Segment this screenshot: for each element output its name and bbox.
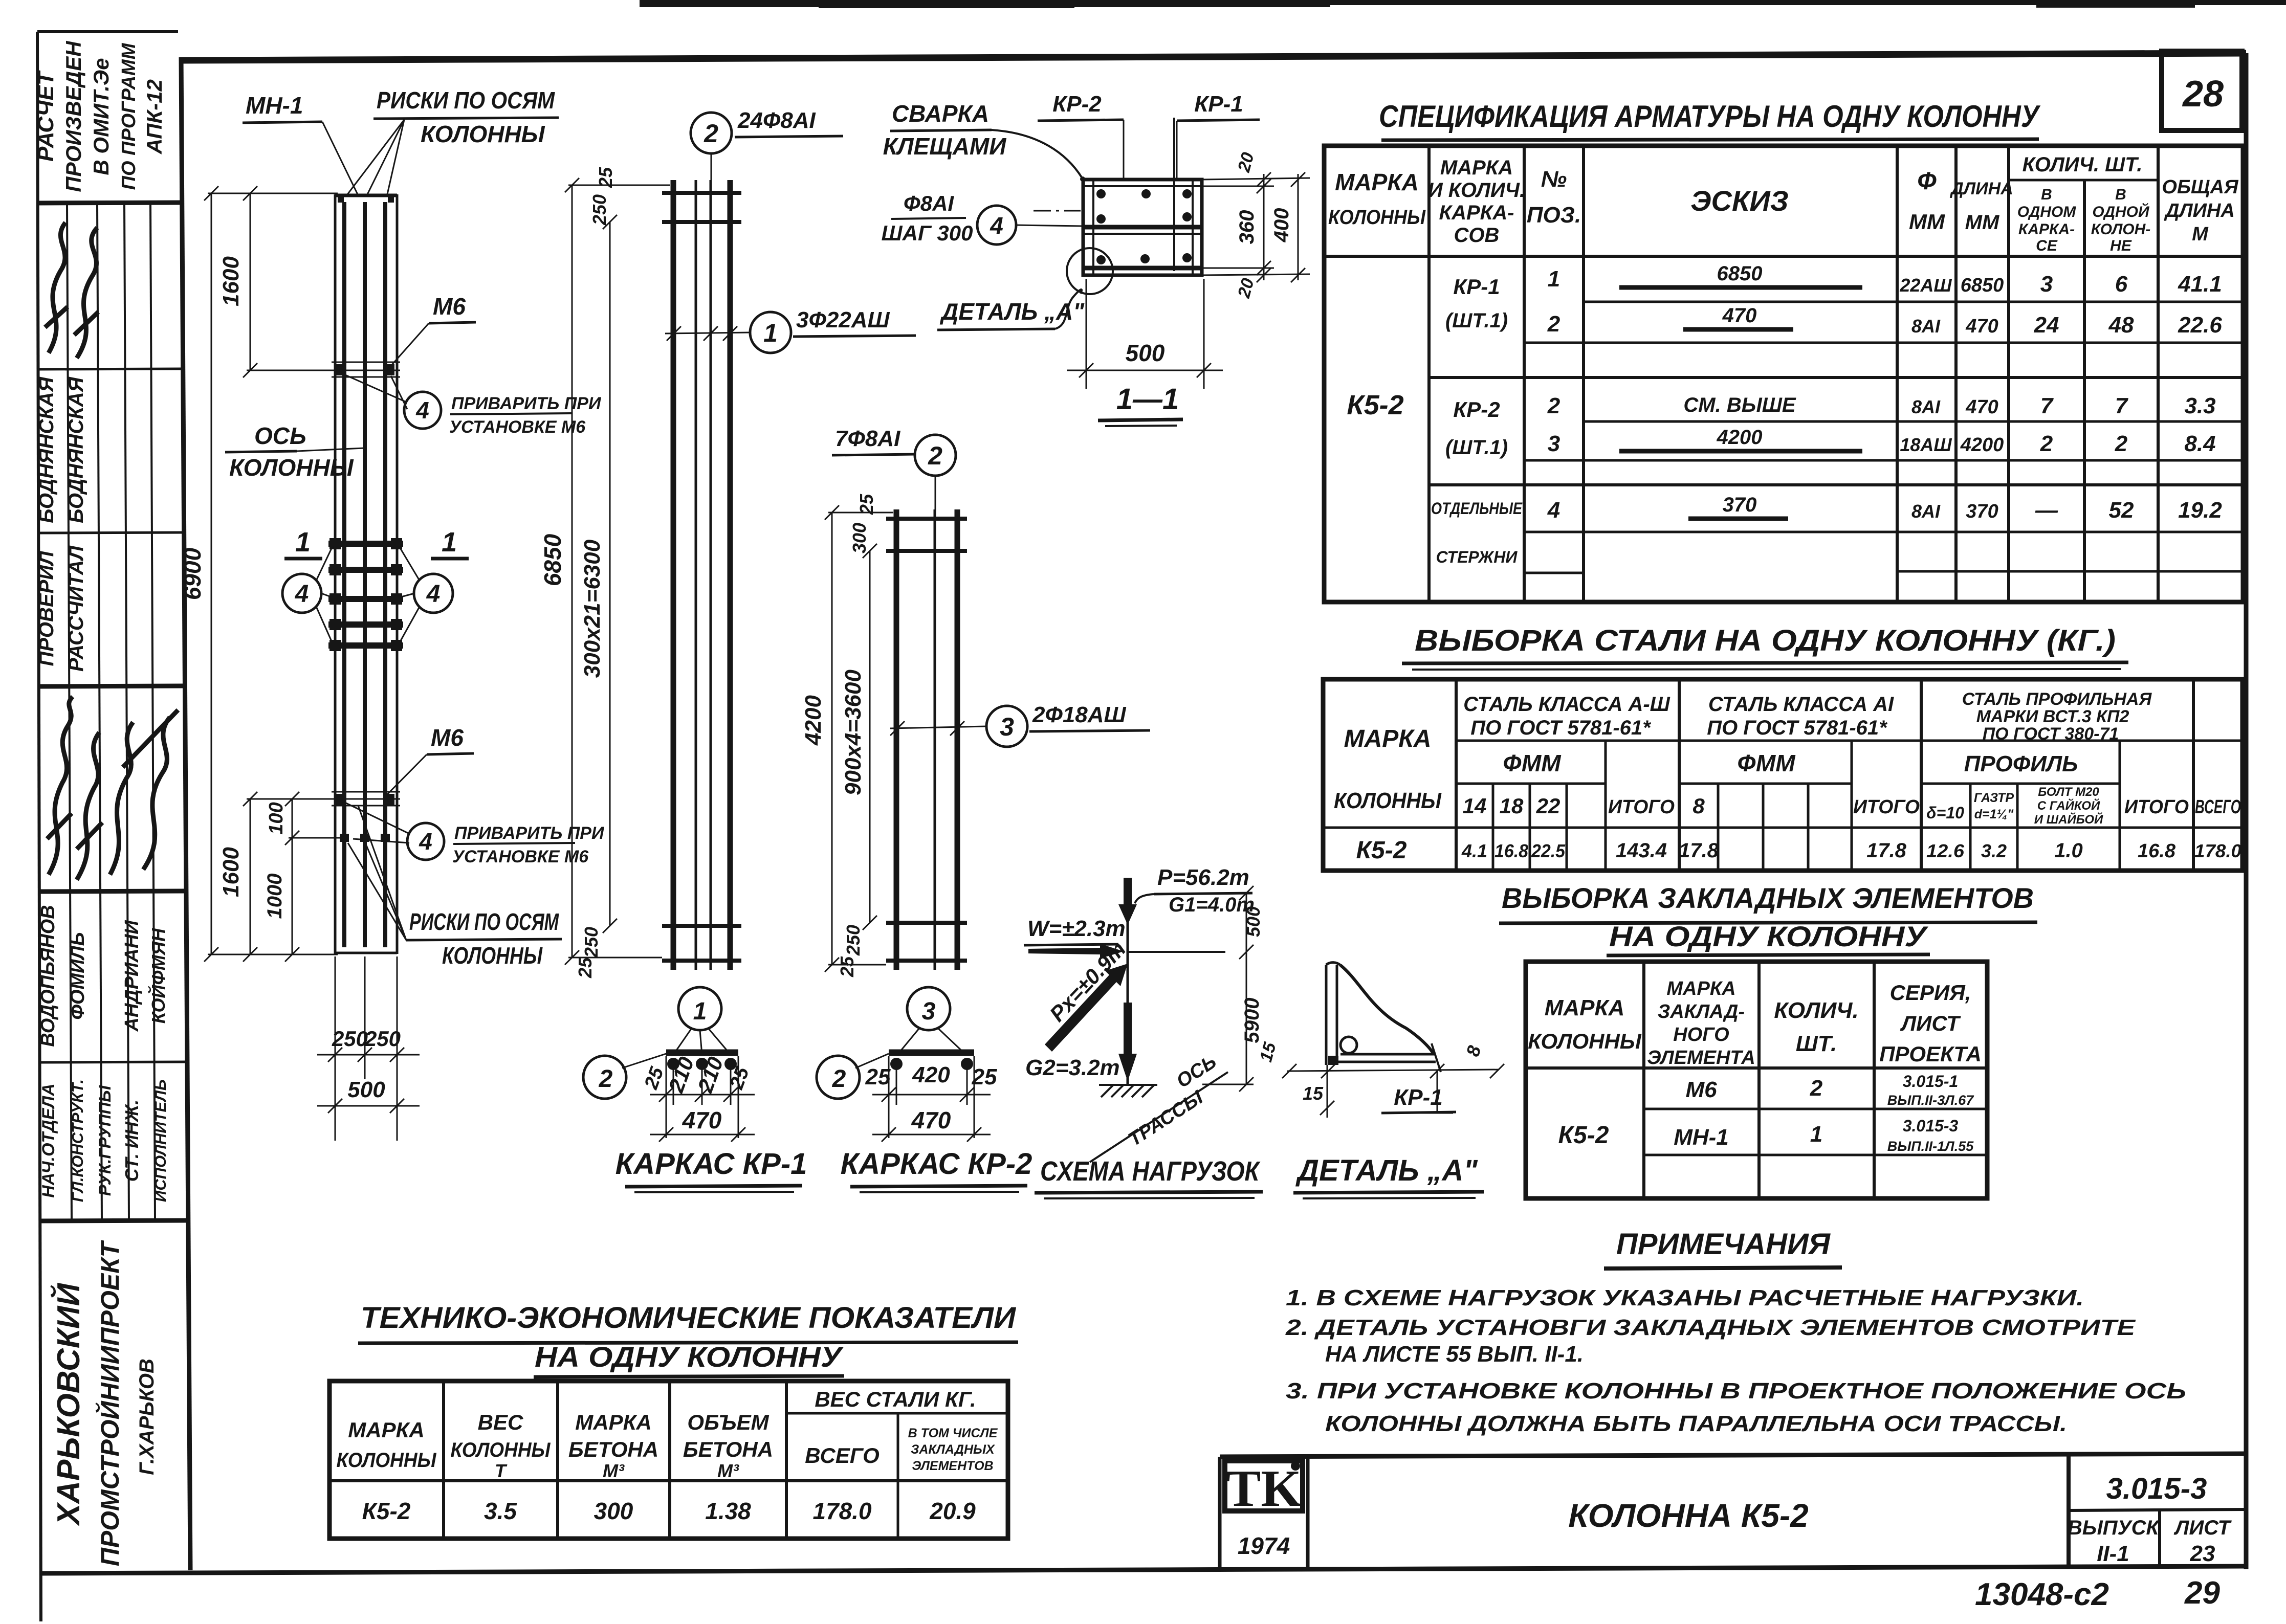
svg-text:24Ф8АI: 24Ф8АI [737, 108, 816, 133]
notes heading [1604, 1228, 1842, 1269]
axis трассы label [1090, 1051, 1228, 1162]
steel summary table grid [1323, 679, 2243, 871]
section 1-1 right dimensions 20 360 400 20 [1202, 172, 1310, 282]
svg-text:ВЫБОРКА СТАЛИ НА ОДНУ КОЛОН: ВЫБОРКА СТАЛИ НА ОДНУ КОЛОННУ (КГ.) [1415, 624, 2116, 657]
callout circle 2 on Кр-1 plan [583, 1054, 666, 1099]
svg-text:178.0: 178.0 [2194, 840, 2241, 861]
svg-text:370: 370 [1723, 494, 1757, 516]
svg-text:2: 2 [599, 1065, 613, 1093]
svg-text:М6: М6 [433, 293, 466, 320]
stamp cell: role titles rotated [39, 1079, 169, 1202]
svg-text:М6: М6 [1685, 1077, 1717, 1102]
label деталь А with squiggle [937, 290, 1085, 330]
label 1-1 [1098, 383, 1183, 426]
svg-text:РАСЧЕТ: РАСЧЕТ [33, 70, 58, 162]
svg-text:28: 28 [2182, 74, 2224, 115]
svg-text:25: 25 [595, 167, 616, 188]
svg-text:КОЛОННЫ ДОЛЖНА БЫТЬ ПАРАЛЛЕ: КОЛОННЫ ДОЛЖНА БЫТЬ ПАРАЛЛЕЛЬНА ОСИ ТРАС… [1325, 1411, 2067, 1436]
svg-text:178.0: 178.0 [812, 1498, 872, 1524]
svg-text:М6: М6 [431, 724, 464, 751]
svg-text:23: 23 [2190, 1541, 2215, 1566]
svg-text:4200: 4200 [1717, 426, 1763, 449]
svg-text:25: 25 [865, 1064, 891, 1089]
svg-text:ДЛИНА: ДЛИНА [1949, 179, 2013, 198]
svg-text:3.015-1: 3.015-1 [1903, 1072, 1959, 1091]
svg-text:КОЛОННЫ: КОЛОННЫ [337, 1449, 437, 1472]
svg-text:КАРКА-: КАРКА- [2018, 221, 2075, 238]
svg-text:420: 420 [912, 1062, 950, 1087]
svg-text:КОЛОННЫ: КОЛОННЫ [229, 454, 354, 481]
svg-text:КОЙФМЯН: КОЙФМЯН [147, 928, 169, 1024]
svg-text:17.8: 17.8 [1679, 839, 1719, 862]
callout circle 4 mid left [282, 546, 333, 643]
svg-text:В: В [2041, 186, 2052, 203]
svg-text:δ=10: δ=10 [1926, 804, 1964, 822]
svg-text:М³: М³ [603, 1460, 625, 1481]
svg-text:1: 1 [1548, 266, 1560, 292]
svg-text:4: 4 [1547, 498, 1560, 523]
svg-text:КОЛОННЫ: КОЛОННЫ [442, 942, 543, 969]
svg-text:25: 25 [972, 1064, 997, 1089]
svg-text:КР-1: КР-1 [1453, 275, 1500, 299]
svg-text:4.1: 4.1 [1461, 840, 1487, 861]
svg-text:8АI: 8АI [1911, 501, 1941, 522]
svg-text:БОДНЯНСКАЯ: БОДНЯНСКАЯ [35, 376, 58, 523]
svg-text:6850: 6850 [1961, 275, 2004, 296]
sheet number box 28 [2162, 51, 2242, 130]
rebar cage Кр-1 plan [650, 1053, 755, 1142]
svg-text:250: 250 [332, 1027, 368, 1051]
svg-text:ИТОГО: ИТОГО [1853, 796, 1920, 818]
stamp cell: calculation note rotated text [33, 40, 166, 192]
dimension 1600 bottom [243, 792, 332, 962]
svg-text:16.8: 16.8 [1494, 840, 1528, 861]
svg-text:В: В [2115, 186, 2126, 203]
callout circle 2 for Кр-2 [832, 426, 956, 509]
svg-text:РИСКИ ПО ОСЯМ: РИСКИ ПО ОСЯМ [377, 87, 555, 114]
stamp signatures upper [45, 223, 98, 358]
column lower embed М6 band [332, 792, 400, 842]
svg-text:ИСПОЛНИТЕЛЬ: ИСПОЛНИТЕЛЬ [151, 1079, 169, 1202]
svg-text:250: 250 [589, 194, 610, 226]
svg-text:МАРКА: МАРКА [1545, 995, 1625, 1020]
svg-text:И КОЛИЧ.: И КОЛИЧ. [1428, 179, 1525, 202]
handwritten doc number bottom [1975, 1575, 2220, 1612]
svg-text:2: 2 [2115, 431, 2128, 456]
svg-text:470: 470 [1722, 304, 1757, 327]
drawing stamp column grid [37, 32, 186, 1621]
svg-text:В ТОМ ЧИСЛЕ: В ТОМ ЧИСЛЕ [908, 1426, 998, 1440]
svg-text:МАРКА: МАРКА [1666, 978, 1735, 999]
callout circle 3 longitudinal bars Кр-2 [890, 702, 1150, 747]
svg-text:TK: TK [1226, 1460, 1301, 1518]
svg-text:ШТ.: ШТ. [1796, 1031, 1837, 1056]
svg-text:25: 25 [837, 956, 858, 977]
svg-text:В ОМИТ.Эе: В ОМИТ.Эе [89, 58, 113, 175]
svg-text:РАССЧИТАЛ: РАССЧИТАЛ [65, 545, 87, 672]
svg-text:КОЛОННЫ: КОЛОННЫ [1328, 206, 1426, 229]
svg-text:СПЕЦИФИКАЦИЯ АРМАТУРЫ НА ОД: СПЕЦИФИКАЦИЯ АРМАТУРЫ НА ОДНУ КОЛОННУ [1379, 99, 2041, 134]
detail A drawing [1326, 963, 1441, 1072]
callout circle 3 on Кр-2 plan [897, 987, 966, 1055]
svg-text:ВСЕГО: ВСЕГО [2195, 796, 2241, 818]
svg-text:АНДРИАНИ: АНДРИАНИ [121, 920, 143, 1032]
svg-text:ПРОИЗВЕДЕН: ПРОИЗВЕДЕН [61, 40, 85, 192]
svg-text:РУК.ГРУППЫ: РУК.ГРУППЫ [95, 1085, 114, 1196]
svg-text:ЗАКЛАДНЫХ: ЗАКЛАДНЫХ [911, 1442, 995, 1457]
stamp cell: executor names rotated [37, 905, 169, 1047]
svg-text:6: 6 [2115, 272, 2128, 297]
svg-text:ШАГ 300: ШАГ 300 [882, 221, 973, 245]
svg-text:УСТАНОВКЕ М6: УСТАНОВКЕ М6 [449, 417, 586, 437]
column upper embed М6 band [332, 362, 400, 377]
tech-economic table grid [329, 1381, 1008, 1539]
svg-text:НА ОДНУ КОЛОННУ: НА ОДНУ КОЛОННУ [1609, 920, 1929, 952]
detail A dimension lines [1282, 1064, 1504, 1118]
title block bottom [1220, 1454, 2246, 1568]
svg-text:470: 470 [1965, 396, 1998, 418]
svg-text:370: 370 [1966, 501, 1998, 522]
svg-text:300: 300 [849, 523, 870, 553]
title: технико-экономические показатели [358, 1301, 1018, 1377]
svg-text:1600: 1600 [218, 847, 244, 897]
stamp cell: organization name rotated [50, 1239, 158, 1566]
svg-text:БОЛТ М20: БОЛТ М20 [2038, 785, 2099, 799]
svg-text:К5-2: К5-2 [1558, 1122, 1609, 1149]
svg-text:1974: 1974 [1238, 1532, 1290, 1559]
svg-text:250: 250 [364, 1027, 401, 1051]
svg-text:МАРКА: МАРКА [575, 1410, 651, 1434]
svg-text:360: 360 [1236, 210, 1258, 244]
svg-text:ВЫП.II-1Л.55: ВЫП.II-1Л.55 [1887, 1139, 1974, 1154]
svg-text:2Ф18АШ: 2Ф18АШ [1032, 702, 1127, 727]
label риски по осям колонны top [346, 87, 559, 196]
svg-text:5900: 5900 [1241, 998, 1263, 1043]
svg-text:КАРКАС КР-1: КАРКАС КР-1 [616, 1147, 807, 1181]
svg-text:К5-2: К5-2 [1356, 837, 1407, 864]
rebar cage Кр-2 plan [872, 1053, 991, 1142]
svg-text:МАРКА: МАРКА [1440, 157, 1513, 179]
svg-text:МАРКИ ВСТ.3 КП2: МАРКИ ВСТ.3 КП2 [1976, 707, 2129, 726]
svg-text:470: 470 [911, 1107, 951, 1133]
svg-text:ПРОВЕРИЛ: ПРОВЕРИЛ [35, 550, 58, 666]
svg-text:ВЕС: ВЕС [478, 1410, 523, 1434]
svg-text:ПОЗ.: ПОЗ. [1527, 203, 1581, 228]
load G2 arrow bottom [1025, 1003, 1137, 1081]
svg-text:Т: Т [495, 1460, 508, 1481]
svg-text:18: 18 [1500, 794, 1524, 818]
label схема нагрузок [1035, 1156, 1263, 1198]
svg-text:ОДНОЙ: ОДНОЙ [2092, 203, 2150, 220]
rebar cage Кр-2 elevation [886, 509, 967, 970]
svg-text:1.0: 1.0 [2054, 839, 2083, 862]
svg-text:8.4: 8.4 [2184, 431, 2215, 456]
svg-text:1: 1 [1810, 1122, 1822, 1147]
svg-text:2: 2 [2040, 431, 2053, 456]
label КР-1 leader [1177, 92, 1260, 180]
svg-text:ОБЪЕМ: ОБЪЕМ [687, 1410, 769, 1434]
svg-text:НАЧ.ОТДЕЛА: НАЧ.ОТДЕЛА [39, 1083, 58, 1198]
svg-text:1000: 1000 [263, 874, 286, 919]
svg-text:3: 3 [1548, 431, 1560, 456]
svg-text:ИТОГО: ИТОГО [1608, 796, 1675, 818]
svg-text:КР-1: КР-1 [1194, 92, 1243, 117]
svg-text:ЭЛЕМЕНТОВ: ЭЛЕМЕНТОВ [912, 1459, 993, 1473]
svg-text:СОВ: СОВ [1454, 224, 1500, 247]
svg-text:СТАЛЬ КЛАССА АI: СТАЛЬ КЛАССА АI [1708, 693, 1894, 716]
svg-text:250: 250 [843, 925, 864, 956]
svg-text:3. ПРИ УСТАНОВКЕ КОЛОННЫ В: 3. ПРИ УСТАНОВКЕ КОЛОННЫ В ПРОЕКТНОЕ ПОЛ… [1286, 1378, 2186, 1404]
dimension 900x4=3600 for Кр-2 [863, 544, 877, 930]
svg-text:3Ф22АШ: 3Ф22АШ [796, 307, 890, 332]
svg-text:КОЛИЧ. ШТ.: КОЛИЧ. ШТ. [2023, 153, 2143, 176]
svg-text:3: 3 [922, 998, 936, 1025]
svg-text:М: М [2192, 224, 2209, 245]
svg-text:ОСЬ: ОСЬ [254, 422, 306, 449]
svg-text:МН-1: МН-1 [1674, 1125, 1729, 1150]
title block texts [1568, 1472, 2232, 1566]
svg-text:29: 29 [2184, 1575, 2220, 1611]
svg-text:500: 500 [1126, 340, 1165, 366]
ground hatch [1099, 1085, 1157, 1097]
svg-text:2. ДЕТАЛЬ УСТАНОВГИ ЗАКЛАДНЫХ: 2. ДЕТАЛЬ УСТАНОВГИ ЗАКЛАДНЫХ ЭЛЕМЕНТОВ … [1285, 1315, 2136, 1340]
rebar cage Кр-1 elevation [662, 180, 741, 970]
callout 4 приварить upper [342, 373, 602, 437]
label каркас Кр-1 [616, 1147, 807, 1192]
load scheme axis [1128, 878, 1225, 1084]
title: specification арматуры [1379, 99, 2041, 146]
label Ф8АI шаг 300 with callout 4 [882, 191, 1083, 245]
section 1-1 box [1083, 118, 1202, 275]
svg-text:КР-1: КР-1 [1394, 1085, 1443, 1110]
svg-text:6850: 6850 [539, 533, 566, 586]
dimension 100 and 1000 [285, 792, 340, 962]
svg-text:22.5: 22.5 [1531, 840, 1566, 861]
callout circle 2 for Кр-1 [691, 108, 843, 180]
svg-text:КОЛОН-: КОЛОН- [2091, 221, 2151, 238]
svg-text:ВЫП.II-3Л.67: ВЫП.II-3Л.67 [1887, 1093, 1974, 1108]
svg-text:ВЫПУСК: ВЫПУСК [2068, 1517, 2160, 1539]
svg-text:3.3: 3.3 [2184, 393, 2215, 418]
svg-text:II-1: II-1 [2097, 1541, 2129, 1566]
section mark 1-1 left [284, 527, 322, 559]
svg-text:Р=56.2т: Р=56.2т [1157, 865, 1249, 890]
svg-text:ПО ПРОГРАММ: ПО ПРОГРАММ [118, 42, 140, 190]
svg-text:СМ. ВЫШЕ: СМ. ВЫШЕ [1683, 394, 1796, 416]
svg-text:КОЛОННА К5-2: КОЛОННА К5-2 [1568, 1497, 1808, 1534]
steel summary table texts [1334, 689, 2241, 864]
dimension 4200 for Кр-2 [825, 505, 893, 972]
svg-text:1. В СХЕМЕ НАГРУЗОК УКАЗАНЫ Р: 1. В СХЕМЕ НАГРУЗОК УКАЗАНЫ РАСЧЕТНЫЕ НА… [1286, 1285, 2084, 1310]
svg-text:2: 2 [704, 119, 718, 148]
svg-text:ВЕС СТАЛИ КГ.: ВЕС СТАЛИ КГ. [815, 1387, 976, 1411]
section axis dash [1034, 210, 1081, 212]
svg-text:7: 7 [2040, 393, 2054, 418]
svg-text:500: 500 [347, 1077, 385, 1102]
svg-text:ПРОФИЛЬ: ПРОФИЛЬ [1964, 751, 2078, 776]
svg-text:МАРКА: МАРКА [348, 1418, 424, 1442]
svg-text:4200: 4200 [801, 695, 826, 746]
svg-text:К5-2: К5-2 [362, 1498, 411, 1524]
svg-text:ФММ: ФММ [1503, 750, 1562, 776]
embedded parts table texts [1528, 978, 1982, 1154]
stamp cell: Боднянская names rotated [35, 376, 87, 523]
svg-text:КАРКАС КР-2: КАРКАС КР-2 [841, 1147, 1032, 1181]
svg-text:ПРОМСТРОЙНИИПРОЕКТ: ПРОМСТРОЙНИИПРОЕКТ [95, 1239, 124, 1566]
svg-text:МАРКА: МАРКА [1344, 725, 1432, 752]
svg-text:300: 300 [594, 1498, 633, 1524]
callout circle 2 on Кр-2 plan [817, 1054, 889, 1099]
label М6 lower [384, 724, 474, 798]
svg-text:КР-2: КР-2 [1453, 397, 1500, 421]
svg-text:143.4: 143.4 [1616, 839, 1667, 862]
svg-text:2: 2 [1547, 312, 1560, 337]
svg-text:ГЛ.КОНСТРУКТ.: ГЛ.КОНСТРУКТ. [69, 1079, 86, 1202]
svg-text:БЕТОНА: БЕТОНА [683, 1437, 773, 1461]
svg-text:ММ: ММ [1909, 210, 1945, 234]
svg-text:G2=3.2т: G2=3.2т [1025, 1055, 1120, 1080]
svg-text:4: 4 [426, 581, 441, 608]
svg-text:НА ЛИСТЕ 55 ВЫП. II-1.: НА ЛИСТЕ 55 ВЫП. II-1. [1325, 1342, 1584, 1367]
svg-text:ВОДОПЬЯНОВ: ВОДОПЬЯНОВ [37, 905, 59, 1047]
section 1-1 bottom dimension 500 [1067, 279, 1223, 389]
svg-text:ПО ГОСТ 5781-61*: ПО ГОСТ 5781-61* [1470, 717, 1652, 739]
svg-text:ОБЩАЯ: ОБЩАЯ [2162, 176, 2238, 198]
svg-text:250: 250 [581, 927, 602, 958]
svg-text:ПРИВАРИТЬ ПРИ: ПРИВАРИТЬ ПРИ [451, 394, 602, 413]
svg-text:48: 48 [2108, 313, 2134, 338]
svg-text:2: 2 [1547, 393, 1560, 418]
svg-text:1: 1 [763, 319, 778, 347]
label ось колонны [225, 422, 364, 481]
svg-text:КР-2: КР-2 [1052, 92, 1102, 117]
load P arrow [1118, 865, 1255, 925]
svg-text:СЕРИЯ,: СЕРИЯ, [1890, 981, 1971, 1005]
svg-text:КОЛИЧ.: КОЛИЧ. [1774, 998, 1858, 1023]
svg-text:БОДНЯНСКАЯ: БОДНЯНСКАЯ [65, 376, 87, 523]
svg-text:НОГО: НОГО [1673, 1024, 1729, 1045]
svg-text:РИСКИ ПО ОСЯМ: РИСКИ ПО ОСЯМ [409, 908, 559, 935]
svg-text:(ШТ.1): (ШТ.1) [1445, 436, 1508, 459]
svg-text:НЕ: НЕ [2110, 237, 2132, 254]
svg-text:8АI: 8АI [1911, 316, 1941, 337]
svg-text:25: 25 [575, 957, 596, 978]
svg-text:4200: 4200 [1960, 434, 2004, 456]
svg-text:ММ: ММ [1965, 211, 2000, 234]
svg-text:БЕТОНА: БЕТОНА [568, 1437, 658, 1461]
svg-text:КОЛОННЫ: КОЛОННЫ [421, 121, 545, 147]
svg-text:ПО ГОСТ 380-71: ПО ГОСТ 380-71 [1983, 724, 2119, 744]
svg-text:14: 14 [1463, 794, 1487, 818]
section 1-1 rebar dots [1096, 189, 1192, 264]
svg-text:3.2: 3.2 [1981, 840, 2007, 861]
svg-text:4: 4 [419, 828, 432, 855]
svg-text:12.6: 12.6 [1926, 840, 1965, 861]
svg-text:400: 400 [1270, 208, 1293, 243]
stamp cell: Проверил Рассчитал rotated [35, 545, 87, 672]
svg-text:22.6: 22.6 [2178, 313, 2222, 338]
svg-text:1—1: 1—1 [1116, 383, 1179, 416]
svg-text:16.8: 16.8 [2138, 840, 2176, 862]
section mark 1-1 right [431, 527, 469, 559]
svg-text:НА ОДНУ КОЛОННУ: НА ОДНУ КОЛОННУ [535, 1341, 844, 1373]
svg-text:22: 22 [1536, 794, 1560, 818]
svg-text:Ф: Ф [1917, 168, 1937, 195]
svg-text:ЗАКЛАД-: ЗАКЛАД- [1658, 1001, 1745, 1022]
svg-text:ДЕТАЛЬ „А": ДЕТАЛЬ „А" [1295, 1154, 1478, 1187]
label деталь А bottom [1293, 1154, 1484, 1198]
label сварка клещами [883, 100, 1085, 182]
svg-text:8АI: 8АI [1911, 396, 1941, 417]
svg-text:И ШАЙБОЙ: И ШАЙБОЙ [2034, 812, 2103, 827]
svg-text:25: 25 [856, 494, 877, 515]
svg-text:Ф8АI: Ф8АI [904, 191, 954, 215]
svg-text:8: 8 [1692, 794, 1705, 818]
svg-text:4: 4 [415, 397, 429, 424]
stamp signatures lower [47, 697, 178, 880]
svg-text:СЕ: СЕ [2036, 237, 2058, 254]
svg-text:3.015-3: 3.015-3 [1903, 1117, 1959, 1135]
svg-text:СВАРКА: СВАРКА [892, 100, 989, 127]
svg-text:ФОМИЛЬ: ФОМИЛЬ [67, 932, 89, 1019]
svg-text:—: — [2035, 498, 2058, 523]
svg-text:900х4=3600: 900х4=3600 [841, 670, 866, 795]
load scheme dimensions 500 5900 [1202, 886, 1254, 1092]
notes text [1285, 1285, 2186, 1436]
svg-text:ИТОГО: ИТОГО [2124, 796, 2189, 818]
embedded parts table grid [1526, 962, 1987, 1198]
dimension 1600 top [243, 186, 332, 377]
svg-text:ФММ: ФММ [1737, 750, 1796, 776]
svg-text:Г.ХАРЬКОВ: Г.ХАРЬКОВ [136, 1359, 158, 1475]
svg-text:ДЕТАЛЬ „А": ДЕТАЛЬ „А" [939, 298, 1085, 325]
callout circle 1 on Кр-1 plan [673, 987, 731, 1055]
column middle welded zone bands [328, 538, 403, 651]
svg-text:1.38: 1.38 [705, 1498, 751, 1524]
svg-text:ПРИМЕЧАНИЯ: ПРИМЕЧАНИЯ [1616, 1228, 1831, 1261]
svg-text:1: 1 [693, 998, 707, 1025]
svg-text:КОЛОННЫ: КОЛОННЫ [451, 1439, 551, 1461]
label КР-2 leader [1038, 92, 1124, 180]
svg-text:22АШ: 22АШ [1899, 275, 1952, 296]
svg-text:СТАЛЬ ПРОФИЛЬНАЯ: СТАЛЬ ПРОФИЛЬНАЯ [1962, 689, 2152, 709]
specification table grid [1324, 146, 2243, 602]
specification table data [1347, 262, 2222, 566]
load W arrow [1024, 916, 1126, 959]
svg-text:ДЛИНА: ДЛИНА [2164, 200, 2235, 221]
svg-text:18АШ: 18АШ [1900, 434, 1952, 455]
specification table header texts [1328, 153, 2239, 254]
svg-text:ВЫБОРКА ЗАКЛАДНЫХ ЭЛЕМЕНТОВ: ВЫБОРКА ЗАКЛАДНЫХ ЭЛЕМЕНТОВ [1502, 882, 2034, 914]
scan edge artifact top [640, 0, 2286, 8]
svg-text:КЛЕЩАМИ: КЛЕЩАМИ [883, 133, 1007, 160]
svg-text:2: 2 [832, 1065, 846, 1093]
callout circle 4 mid right [399, 546, 453, 643]
svg-text:ЛИСТ: ЛИСТ [2173, 1517, 2232, 1539]
svg-text:СТ. ИНЖ.: СТ. ИНЖ. [121, 1100, 142, 1182]
svg-text:6900: 6900 [179, 547, 206, 600]
svg-text:ХАРЬКОВСКИЙ: ХАРЬКОВСКИЙ [50, 1282, 86, 1526]
svg-text:24: 24 [2034, 313, 2059, 338]
dimension 6900 [204, 186, 338, 962]
svg-text:4: 4 [990, 212, 1003, 239]
TK logo [1225, 1460, 1303, 1559]
svg-text:20.9: 20.9 [929, 1498, 976, 1524]
svg-text:ТЕХНИКО-ЭКОНОМИЧЕСКИЕ ПОКАЗАТ: ТЕХНИКО-ЭКОНОМИЧЕСКИЕ ПОКАЗАТЕЛИ [361, 1301, 1016, 1334]
svg-text:3.015-3: 3.015-3 [2106, 1472, 2207, 1505]
svg-text:АПК-12: АПК-12 [142, 79, 166, 154]
svg-text:С ГАЙКОЙ: С ГАЙКОЙ [2037, 798, 2100, 813]
